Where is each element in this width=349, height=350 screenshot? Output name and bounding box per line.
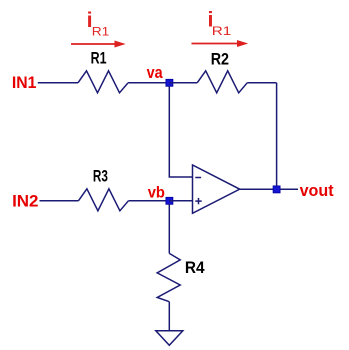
svg-text:IN1: IN1	[12, 73, 37, 92]
wire R2 to feedback corner	[247, 82, 276, 84]
current label i_R1 (right)	[208, 8, 232, 39]
wire R4 to ground	[168, 302, 170, 331]
current label i_R1 (left)	[87, 8, 110, 39]
op-amp U1	[193, 165, 240, 213]
node va junction square	[166, 79, 173, 86]
wire va to R2	[169, 82, 197, 84]
svg-text:R3: R3	[93, 168, 108, 186]
wire vb to plus input	[169, 200, 192, 202]
resistor R1	[78, 71, 128, 93]
wire IN1 to R1	[38, 82, 78, 84]
current arrow (right)	[192, 41, 247, 47]
svg-text:R2: R2	[211, 51, 229, 69]
wire IN2 to R3	[40, 200, 79, 202]
wire R3 to node vb	[128, 200, 169, 202]
current arrow (left)	[71, 41, 124, 47]
wire R1 to node va	[128, 82, 169, 84]
wire feedback vertical	[276, 83, 278, 190]
node vb junction square	[166, 197, 173, 204]
svg-text:va: va	[147, 63, 163, 82]
wire va down to minus input	[169, 86, 192, 177]
wire op-amp output to vout	[240, 188, 298, 190]
svg-text:R1: R1	[92, 27, 110, 39]
output junction square	[273, 186, 280, 193]
svg-text:R4: R4	[185, 259, 205, 277]
svg-text:vb: vb	[148, 185, 165, 202]
resistor R4	[157, 253, 180, 301]
svg-text:IN2: IN2	[12, 191, 38, 210]
svg-text:vout: vout	[300, 182, 334, 200]
ground	[156, 331, 183, 346]
wire vb down to R4	[168, 204, 170, 253]
resistor R2	[197, 71, 247, 93]
svg-text:R1: R1	[91, 49, 107, 67]
svg-text:R1: R1	[212, 26, 232, 38]
resistor R3	[78, 189, 128, 211]
